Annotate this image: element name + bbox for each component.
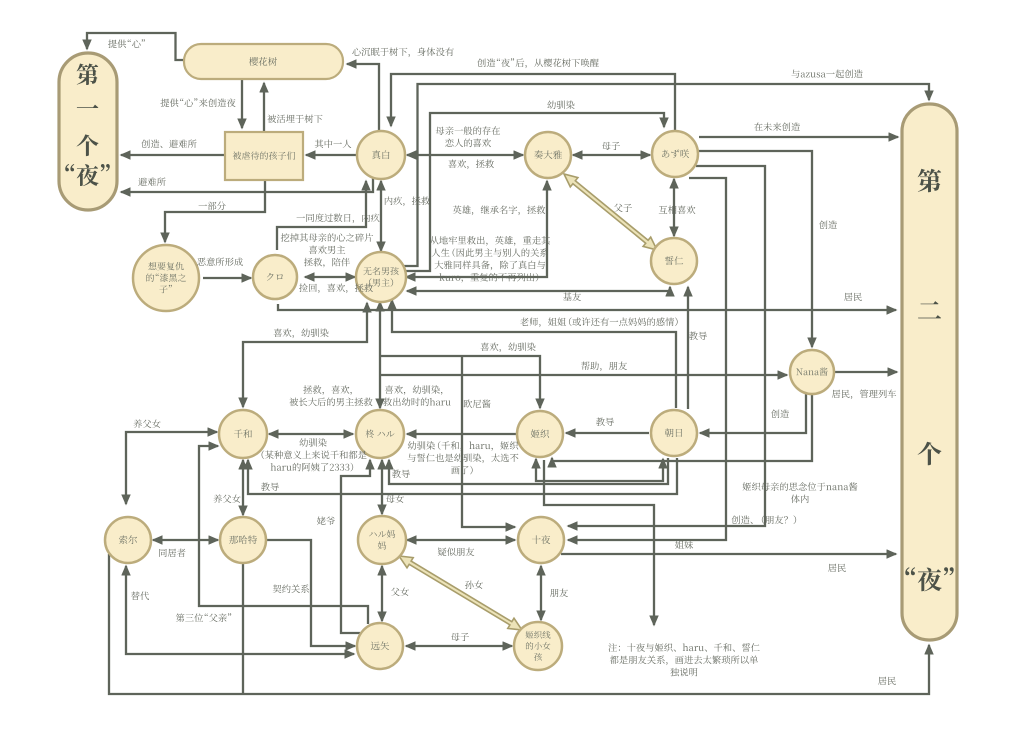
label 孙女	[465, 580, 483, 589]
label 父子	[614, 204, 632, 212]
node 奏大雅	[525, 132, 571, 178]
label 注十夜与姬织	[608, 643, 759, 652]
label 幼驯染某种意义	[299, 438, 326, 447]
label 契约关系	[273, 584, 309, 593]
label 教导3	[261, 483, 279, 492]
node あず咲	[652, 131, 698, 177]
wire 幼驯染 chiwa-haru	[269, 433, 353, 435]
wire 帮助朋友 mc->nana	[380, 374, 787, 376]
label 喜欢幼驯染2	[274, 329, 329, 339]
label 母亲一般的存在	[436, 126, 500, 135]
wire 居民 juya->night2	[561, 553, 896, 555]
wire 其中一人 mashiro->abused	[306, 154, 356, 156]
wire 养父女 soru-chiwa	[126, 432, 217, 504]
wire 姬织母亲思念 nana->himeori	[552, 394, 812, 461]
label 朋友	[550, 589, 568, 598]
wire 姬织-朝日	[536, 459, 663, 481]
node 真白	[357, 131, 405, 179]
wire 教导 asahi->chiwa	[248, 458, 677, 494]
wire 提供心来创造夜 sakura->abused	[241, 80, 243, 128]
node 第一个夜	[59, 53, 117, 210]
wire 与azusa一起创造 mc->night2 top	[404, 84, 929, 266]
node ハル妈妈	[358, 516, 406, 564]
label 姬织母亲的思念	[742, 482, 857, 491]
node クロ	[253, 255, 297, 299]
node 柊ハル	[356, 410, 404, 458]
wire 互相喜欢 azusa-seijin	[673, 179, 675, 236]
label 喜欢幼驯染	[481, 343, 536, 353]
label 创造	[819, 220, 837, 229]
wire 养父女 chiwa-nahate	[242, 460, 244, 515]
wire 一同度过数日 kuro->mashiro	[277, 181, 366, 250]
wire 母子 tooya-girl	[406, 645, 512, 647]
label 姐妹	[675, 540, 693, 549]
wire 母子 kanata-azusa	[573, 154, 650, 156]
label 教导	[689, 332, 707, 341]
wire 幼驯染 himeori->haru	[407, 433, 516, 435]
wire 教导 asahi->himeori	[566, 432, 649, 434]
wire 母女 haru-harumama	[381, 460, 383, 514]
wire 姥爷 tooya->haru	[341, 460, 370, 633]
label 老师姐姐	[520, 317, 678, 327]
wire 母亲一般的存在 mashiro-kanata	[407, 154, 523, 156]
node 朝日	[651, 410, 697, 456]
node 无名男孩男主	[356, 252, 406, 302]
wire 父女 harumama-tooya	[381, 566, 383, 621]
label 一同度过数日内疚	[297, 213, 380, 223]
label 教导4	[392, 470, 410, 479]
node 索尔	[105, 517, 151, 563]
label 提供心来创造夜	[160, 98, 235, 107]
label 欧尼酱	[464, 399, 491, 408]
node 誓仁	[651, 238, 697, 284]
wire 喜欢幼驯染 mc->himeori	[380, 356, 540, 408]
wire 教导 asahi->seijin	[687, 287, 689, 409]
wire 欧尼酱 mc->juya	[462, 356, 515, 527]
thick arrow 父子 kanata-seijin	[564, 174, 657, 250]
wire 第三位父亲 tooya->chiwa	[199, 446, 368, 624]
wire 创造 nana->asahi	[700, 394, 806, 433]
label 母子2	[451, 633, 469, 641]
label 居民	[844, 293, 862, 301]
wire 在未来创造 azusa->night2	[699, 136, 898, 138]
wire 教导 asahi->haru	[389, 458, 668, 484]
label 创造避难所	[141, 139, 196, 148]
node 姬织线的小女孩	[514, 622, 562, 670]
node 想要复仇的漆黑之子	[133, 245, 199, 311]
label 姥爷	[317, 516, 335, 525]
wire 幼驯染 mc->azusa	[404, 113, 664, 271]
label 养父女	[133, 419, 160, 428]
label 居民管理列车	[832, 389, 896, 399]
wire nahate->bus	[242, 564, 244, 694]
wire 居民 bottom bus ->night2	[109, 554, 929, 694]
label 互相喜欢	[659, 206, 696, 215]
wire 拯救喜欢 mc-haru	[379, 302, 381, 408]
node 樱花树	[184, 44, 343, 79]
wire 居民 kuro->night2	[278, 304, 896, 310]
node 十夜	[518, 517, 564, 563]
label 幼驯染	[547, 101, 574, 110]
label 喜欢拯救	[448, 160, 494, 170]
label 帮助朋友	[581, 362, 627, 372]
wire 被活埋于树下 abused->sakura	[263, 83, 265, 131]
wire 喜欢幼驯染 mc-chiwa	[243, 303, 367, 407]
label 被活埋于树下	[267, 114, 322, 123]
label 居民2	[828, 564, 846, 572]
wire 避难所 mashiro->night1	[121, 177, 373, 192]
wire 挖掉碎片 kuro-mc	[305, 276, 355, 278]
label 创造夜后唤醒	[477, 58, 599, 68]
wire 朋友 juya-girl	[540, 566, 542, 620]
label 一部分	[199, 201, 226, 210]
label 居民3	[878, 677, 896, 685]
wire 心沉眠于树下 mashiro->sakura	[347, 64, 379, 130]
label 在未来创造	[754, 122, 800, 131]
node 那哈特	[220, 517, 266, 563]
label 替代	[131, 592, 149, 601]
thick arrow 孙女 harumama-girl	[399, 556, 522, 630]
wire 注释箭头 himeori->note	[544, 460, 654, 625]
label 父女	[391, 587, 409, 596]
wire 同居者 soru-nahate	[153, 539, 218, 541]
wire 契约关系 nahate->tooya	[267, 540, 355, 646]
label 同居者	[159, 548, 185, 557]
label 英雄继承名字拯救	[453, 205, 545, 215]
wire 一部分 abused->revenge	[165, 181, 265, 242]
label 从地牢里救出	[430, 236, 550, 246]
label 疑似朋友	[438, 548, 475, 557]
node 被虐待的孩子们	[225, 132, 303, 180]
wire 基友 mc-seijin	[407, 287, 670, 291]
wire 内疚拯救 mashiro-mc	[380, 181, 382, 251]
wire 疑似朋友 harumama-juya	[407, 539, 515, 541]
label 创造朋友	[732, 515, 797, 524]
node 第二个夜	[902, 104, 957, 640]
label 内疚拯救	[385, 196, 430, 206]
wire 创造朋友 azusa->juya	[568, 166, 765, 526]
label 第三位父亲	[176, 613, 231, 622]
label 基友	[563, 293, 581, 302]
wire 姐妹 azusa->juya	[568, 178, 726, 540]
wire 创造避难所 abused->night1	[121, 154, 224, 156]
label 其中一人	[315, 140, 351, 149]
label 幼驯染千和haru姬织	[408, 441, 518, 451]
wire 居民管理列车 nana->night2	[835, 371, 897, 373]
node 姬织	[517, 411, 563, 457]
label 母女	[386, 494, 404, 503]
wire 恶意所形成 revenge->kuro	[203, 277, 251, 279]
node 千和	[219, 410, 267, 458]
label 提供“心”	[108, 39, 145, 48]
label 拯救喜欢被长大后的男主拯救	[303, 385, 351, 395]
wire 老师姐姐 mc->asahi	[392, 300, 676, 408]
node 远矢	[357, 623, 403, 669]
node Nana酱	[790, 350, 834, 394]
label 喜欢幼驯染救出幼时的haru	[385, 385, 442, 395]
label 创造2	[771, 409, 789, 418]
label 避难所	[138, 177, 165, 186]
label 恶意所形成	[197, 257, 243, 266]
label 教导2	[596, 418, 614, 427]
wire 创造 azusa->nana	[698, 151, 812, 347]
label 心沉眠于树下	[352, 47, 453, 57]
wire 创造夜后唤醒 azusa->mashiro	[391, 74, 675, 131]
label 母子	[602, 142, 620, 150]
wire 提供心 sakura->night1	[87, 33, 184, 60]
label 挖掉其母亲的心之碎片	[281, 233, 373, 242]
wire 英雄继承名字 mc-kanata	[406, 181, 547, 277]
label 与azusa一起创造	[791, 69, 862, 78]
label 养父女2	[213, 494, 240, 503]
label 捡回喜欢拯救	[299, 283, 373, 293]
wire 替代 soru-tooya	[126, 566, 354, 654]
